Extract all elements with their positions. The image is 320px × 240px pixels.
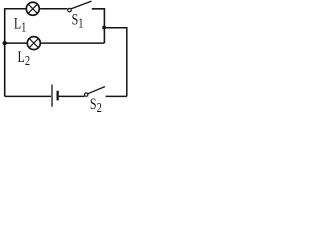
wire: L2 branch right segment to inner vertical — [41, 42, 104, 44]
label S1 — [72, 11, 84, 31]
battery short thick plate — [57, 91, 59, 101]
lamp L1 (circle with X) — [26, 2, 39, 15]
svg-text:L1: L1 — [14, 15, 27, 35]
wire: node A branch right and outer-right vertical down to bottom — [104, 28, 126, 97]
wire: lamp L1 to switch S1 terminal — [40, 8, 67, 10]
wire: after S1 lever, to top-right corner, down to L2 branch — [92, 9, 105, 43]
wire: battery to switch S2 terminal — [59, 95, 85, 97]
switch S2 terminal circle — [85, 93, 88, 96]
svg-text:L2: L2 — [18, 49, 31, 69]
wire: top-left horizontal from corner to lamp L1 — [5, 8, 26, 10]
switch S1 terminal circle — [68, 8, 72, 12]
label L1 — [14, 15, 27, 35]
battery long plate — [51, 85, 53, 107]
lamp L2 (circle with X) — [27, 37, 40, 50]
switch S1 lever (open) — [71, 1, 92, 9]
label S2 — [90, 96, 102, 116]
node A junction dot — [102, 26, 106, 30]
wire: bottom-left from corner to battery — [5, 95, 51, 97]
wire: L2 branch left segment — [5, 42, 27, 44]
node B junction dot on left vertical — [2, 41, 6, 45]
wire: left vertical side — [4, 8, 6, 96]
switch S2 lever (open) — [88, 87, 105, 94]
svg-text:S2: S2 — [90, 96, 102, 114]
wire: after S2 lever to bottom-right corner — [106, 95, 127, 97]
label L2 — [18, 49, 31, 69]
svg-text:S1: S1 — [72, 11, 84, 31]
